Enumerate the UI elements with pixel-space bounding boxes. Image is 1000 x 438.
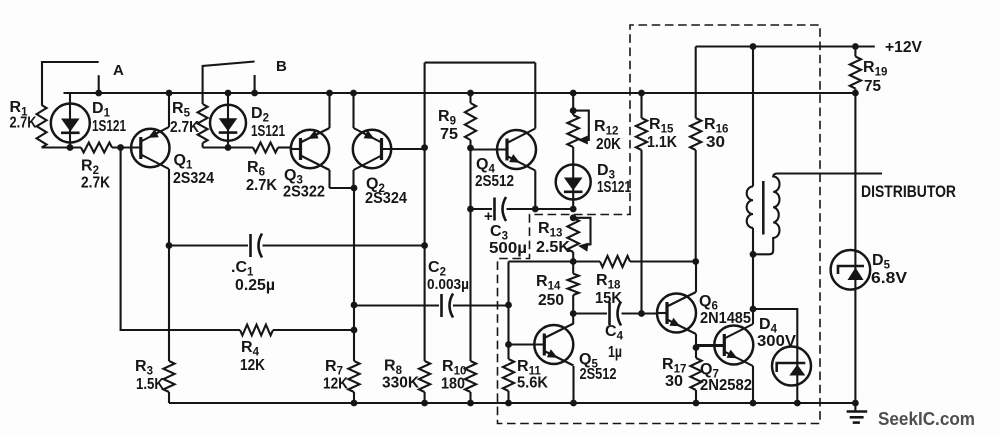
wire D4 bracket xyxy=(753,309,797,347)
junction R15 rail xyxy=(638,90,645,97)
junction R13 tap xyxy=(570,214,577,221)
label R3 xyxy=(135,358,164,393)
junction node/R4 row xyxy=(351,327,358,334)
transistor Q4 2S512 xyxy=(471,129,537,171)
resistor R1 xyxy=(37,105,47,148)
label B xyxy=(276,58,287,75)
svg-text:2S324: 2S324 xyxy=(173,170,214,187)
junction D4 bottom xyxy=(794,400,801,407)
junction R13/R14/R18 row xyxy=(570,258,577,265)
junction Q5 base xyxy=(505,341,512,348)
wire D3 through xyxy=(572,165,574,210)
junction D4 bracket tap xyxy=(750,306,757,313)
label D4 xyxy=(757,316,796,350)
wire collector node down (R7 line) xyxy=(353,188,355,361)
junction Q2 emitter rail xyxy=(350,90,357,97)
diode D4 300V zener xyxy=(772,347,811,386)
wire Q3 collector down xyxy=(330,170,355,188)
label Q5 xyxy=(579,351,617,383)
wire row A-cell xyxy=(42,146,141,148)
resistor R16 xyxy=(690,47,701,262)
junction Q6 emitter node xyxy=(693,344,700,351)
wire Q7 emitter down xyxy=(752,366,754,403)
wire Q1 collector down xyxy=(168,169,170,361)
resistor R11 xyxy=(503,359,514,403)
junction Q2/Q3 collectors xyxy=(351,185,358,192)
svg-text:30: 30 xyxy=(706,134,725,151)
diode D3 xyxy=(556,165,591,200)
wire Q4 collector up xyxy=(534,63,536,129)
resistor R4 xyxy=(240,325,273,336)
wire Q5 node vertical (R11 line) xyxy=(507,262,509,360)
wire D2 vertical xyxy=(227,93,229,148)
svg-text:2S322: 2S322 xyxy=(283,184,325,201)
wire Q2 emitter up xyxy=(352,93,354,128)
svg-text:12K: 12K xyxy=(240,357,265,374)
diode D5 6.8V zener xyxy=(831,250,871,290)
wire Q4 emitter down xyxy=(534,171,536,210)
wire C1 row right xyxy=(263,244,425,246)
wire R12 line top xyxy=(572,93,574,115)
svg-text:2.7K: 2.7K xyxy=(170,119,199,136)
wire R12 to D3 xyxy=(572,147,574,165)
junction Q5 emitter bottom xyxy=(570,400,577,407)
svg-text:2S512: 2S512 xyxy=(475,173,514,190)
svg-text:2.7K: 2.7K xyxy=(246,177,277,194)
wire R14 to Q5 xyxy=(572,314,574,325)
resistor R7 xyxy=(348,361,359,403)
svg-text:300V: 300V xyxy=(757,333,796,350)
capacitor C4 xyxy=(610,302,622,326)
wire R18 row right xyxy=(630,260,696,262)
svg-text:2S512: 2S512 xyxy=(580,366,617,383)
label R4 xyxy=(240,339,265,374)
svg-text:5.6K: 5.6K xyxy=(517,375,548,392)
resistor R9 xyxy=(465,93,476,209)
label R13 xyxy=(536,220,570,256)
junction R7 bottom xyxy=(351,400,358,407)
junction D2 bottom xyxy=(225,144,232,151)
svg-text:B: B xyxy=(276,58,287,75)
junction R9 rail xyxy=(467,90,474,97)
svg-text:500µ: 500µ xyxy=(489,240,527,257)
junction R19 bottom rail xyxy=(852,90,859,97)
wire C4 row left xyxy=(573,312,607,314)
junction C2 right xyxy=(505,302,512,309)
wire R8 line (Q2 base node) xyxy=(424,63,426,361)
label R12 xyxy=(594,118,621,153)
label R17 xyxy=(662,356,686,390)
label Q2 xyxy=(365,176,407,208)
label R14 xyxy=(536,273,564,309)
label Q7 xyxy=(700,361,752,394)
label C3 xyxy=(489,223,527,257)
diode D1 xyxy=(51,104,90,143)
wire base node down to R4 row xyxy=(121,148,240,331)
wire C2 row left xyxy=(354,304,439,306)
resistor R3 xyxy=(163,361,174,403)
resistor R10 xyxy=(465,361,476,403)
junction B tick/rail xyxy=(251,90,258,97)
svg-text:1.1K: 1.1K xyxy=(647,134,677,151)
junction D1 bottom xyxy=(67,144,74,151)
label Q1 xyxy=(173,152,214,187)
label R7 xyxy=(323,358,348,393)
svg-text:6.8V: 6.8V xyxy=(871,270,907,287)
resistor R19 xyxy=(850,47,861,94)
transistor Q2 2S324 xyxy=(353,128,425,170)
label A xyxy=(113,62,124,79)
label R16 xyxy=(704,116,728,151)
junction R9 line / C3 row xyxy=(467,206,474,213)
wire +12V top feed xyxy=(696,45,875,47)
label C3 plus xyxy=(484,208,493,225)
svg-text:2.5K: 2.5K xyxy=(536,239,570,256)
wire C1 row left xyxy=(169,244,248,246)
transistor Q3 2S322 xyxy=(291,128,330,170)
wire Q6 emitter down xyxy=(695,334,697,358)
svg-text:2N1485: 2N1485 xyxy=(700,310,751,327)
transistor Q5 2S512 xyxy=(534,324,573,366)
watermark SeekIC.com xyxy=(878,409,975,429)
svg-text:1.5K: 1.5K xyxy=(136,376,164,393)
wire Q7 base xyxy=(696,345,724,347)
label DISTRIBUTOR xyxy=(861,182,956,201)
label R19 xyxy=(863,59,887,95)
wire bottom ground rail xyxy=(169,402,855,404)
label Q6 xyxy=(699,293,751,327)
wire row B-cell xyxy=(203,146,292,148)
junction Q3 emitter rail xyxy=(326,90,333,97)
junction primary/secondary/Q7 collector xyxy=(750,251,757,258)
resistor R12 (variable) xyxy=(567,111,588,147)
junction C1 right xyxy=(421,242,428,249)
wire R13 to R18 row xyxy=(572,252,574,262)
svg-text:330K: 330K xyxy=(382,375,419,392)
svg-text:+12V: +12V xyxy=(885,39,922,56)
svg-text:2N2582: 2N2582 xyxy=(700,377,752,394)
svg-text:2.7K: 2.7K xyxy=(81,175,110,192)
wire D1 vertical xyxy=(69,93,71,148)
transformer primary winding xyxy=(747,186,753,228)
junction R9/Q4 base xyxy=(467,145,474,152)
label R8 xyxy=(382,358,419,392)
label C4 xyxy=(605,323,624,361)
svg-text:12K: 12K xyxy=(323,376,348,393)
junction D3 bottom / C3 row xyxy=(570,206,577,213)
resistor R17 xyxy=(690,358,701,403)
dashed module boundary xyxy=(498,25,821,424)
label Q4 xyxy=(475,156,514,190)
svg-text:180: 180 xyxy=(441,376,465,393)
junction R14/C4 row xyxy=(570,310,577,317)
label Q3 xyxy=(283,167,325,201)
wire R18 row left xyxy=(509,260,601,262)
svg-text:1S121: 1S121 xyxy=(597,179,631,196)
junction R8 bottom xyxy=(421,400,428,407)
svg-text:75: 75 xyxy=(440,126,458,143)
label C1 xyxy=(231,259,275,294)
node A tick to rail xyxy=(98,75,100,93)
label R11 xyxy=(517,358,548,392)
svg-text:2S324: 2S324 xyxy=(365,190,407,207)
wire distributor lead xyxy=(778,172,883,174)
svg-text:20K: 20K xyxy=(596,136,621,153)
resistor R14 xyxy=(568,262,579,314)
svg-text:DISTRIBUTOR: DISTRIBUTOR xyxy=(861,182,956,201)
node B tick to rail xyxy=(254,75,256,93)
junction C4/R15 line xyxy=(638,310,645,317)
svg-text:A: A xyxy=(113,62,124,79)
junction Q7 emitter bottom xyxy=(750,400,757,407)
label R6 xyxy=(246,159,277,194)
wire Q4 top bracket xyxy=(425,62,536,64)
junction R2/Q1 base xyxy=(117,144,124,151)
label D2 xyxy=(251,105,285,140)
svg-text:250: 250 xyxy=(538,292,564,309)
label R15 xyxy=(647,116,677,151)
junction R12 tap xyxy=(570,107,577,114)
svg-text:75: 75 xyxy=(864,78,881,95)
wire C2 row right xyxy=(453,304,509,306)
label R9 xyxy=(438,108,458,143)
label D1 xyxy=(92,100,126,135)
node B bracket wire xyxy=(203,62,255,105)
svg-text:1S121: 1S121 xyxy=(251,123,285,140)
wire D4 through xyxy=(796,347,798,403)
label R5 xyxy=(170,100,199,136)
wire R10 line xyxy=(469,209,471,361)
resistor R2 xyxy=(81,143,112,153)
wire R4 to collector node xyxy=(273,329,354,331)
junction R11 bottom xyxy=(505,400,512,407)
junction D2 rail xyxy=(225,90,232,97)
wire C4 row right xyxy=(622,312,658,314)
transformer primary wire bottom xyxy=(752,228,754,254)
resistor R15 xyxy=(636,93,647,314)
label R1 xyxy=(10,99,37,132)
wire Q6 collector up xyxy=(695,262,697,293)
transformer primary wire top xyxy=(752,47,754,187)
junction R19 top xyxy=(852,43,859,50)
diode D2 xyxy=(210,105,246,141)
resistor R18 xyxy=(600,256,630,267)
junction Q1 emitter rail xyxy=(166,90,173,97)
svg-text:30: 30 xyxy=(665,373,683,390)
label R2 xyxy=(81,158,110,192)
wire main positive rail (after R19) xyxy=(64,92,856,94)
svg-text:SeekIC.com: SeekIC.com xyxy=(878,409,975,429)
label D5 xyxy=(871,252,907,287)
capacitor C1 xyxy=(251,234,263,258)
junction A tick/rail xyxy=(95,90,102,97)
junction R17 bottom xyxy=(693,400,700,407)
wire C3 row right xyxy=(507,208,574,210)
svg-text:1µ: 1µ xyxy=(608,344,622,361)
junction Q1 collector / C1 xyxy=(166,242,173,249)
wire Q1 emitter up xyxy=(168,93,170,127)
resistor R8 xyxy=(419,361,430,403)
wire Q5 base xyxy=(509,343,545,345)
junction node/C2 row xyxy=(351,302,358,309)
label R10 xyxy=(441,358,466,393)
junction R12 rail xyxy=(570,90,577,97)
junction Q2 base xyxy=(421,144,428,151)
svg-text:1S121: 1S121 xyxy=(92,118,126,135)
junction R10 bottom xyxy=(467,400,474,407)
resistor R5 xyxy=(198,104,208,148)
wire Q7 collector up xyxy=(752,254,754,324)
ground xyxy=(847,400,868,423)
svg-text:0.25µ: 0.25µ xyxy=(235,277,275,294)
transistor Q7 2N2582 xyxy=(696,324,753,366)
wire C3 row left xyxy=(471,208,493,210)
transformer core xyxy=(762,181,765,235)
resistor R6 xyxy=(253,143,278,153)
capacitor C2 xyxy=(442,294,454,318)
label R18 xyxy=(595,272,622,307)
junction Q6 collector/R18 row xyxy=(692,258,699,265)
wire Q3 emitter up xyxy=(328,93,330,128)
transistor Q6 2N1485 xyxy=(657,292,696,334)
node A bracket wire xyxy=(42,62,99,105)
transformer secondary winding xyxy=(753,174,780,255)
svg-text:2.7K: 2.7K xyxy=(10,115,37,132)
junction primary +12V xyxy=(750,43,757,50)
svg-text:0.003µ: 0.003µ xyxy=(427,276,469,293)
wire D5 line xyxy=(854,93,856,403)
capacitor C3 xyxy=(495,197,507,221)
label D3 xyxy=(597,162,631,196)
resistor R13 (variable) xyxy=(567,218,590,252)
label +12V xyxy=(885,39,922,56)
wire Q2 collector down xyxy=(352,170,354,188)
junction C3/Q4 emitter xyxy=(532,206,539,213)
wire Q5 emitter down xyxy=(572,366,574,403)
transistor Q1 2S324 xyxy=(131,127,169,169)
label C2 xyxy=(427,259,469,293)
